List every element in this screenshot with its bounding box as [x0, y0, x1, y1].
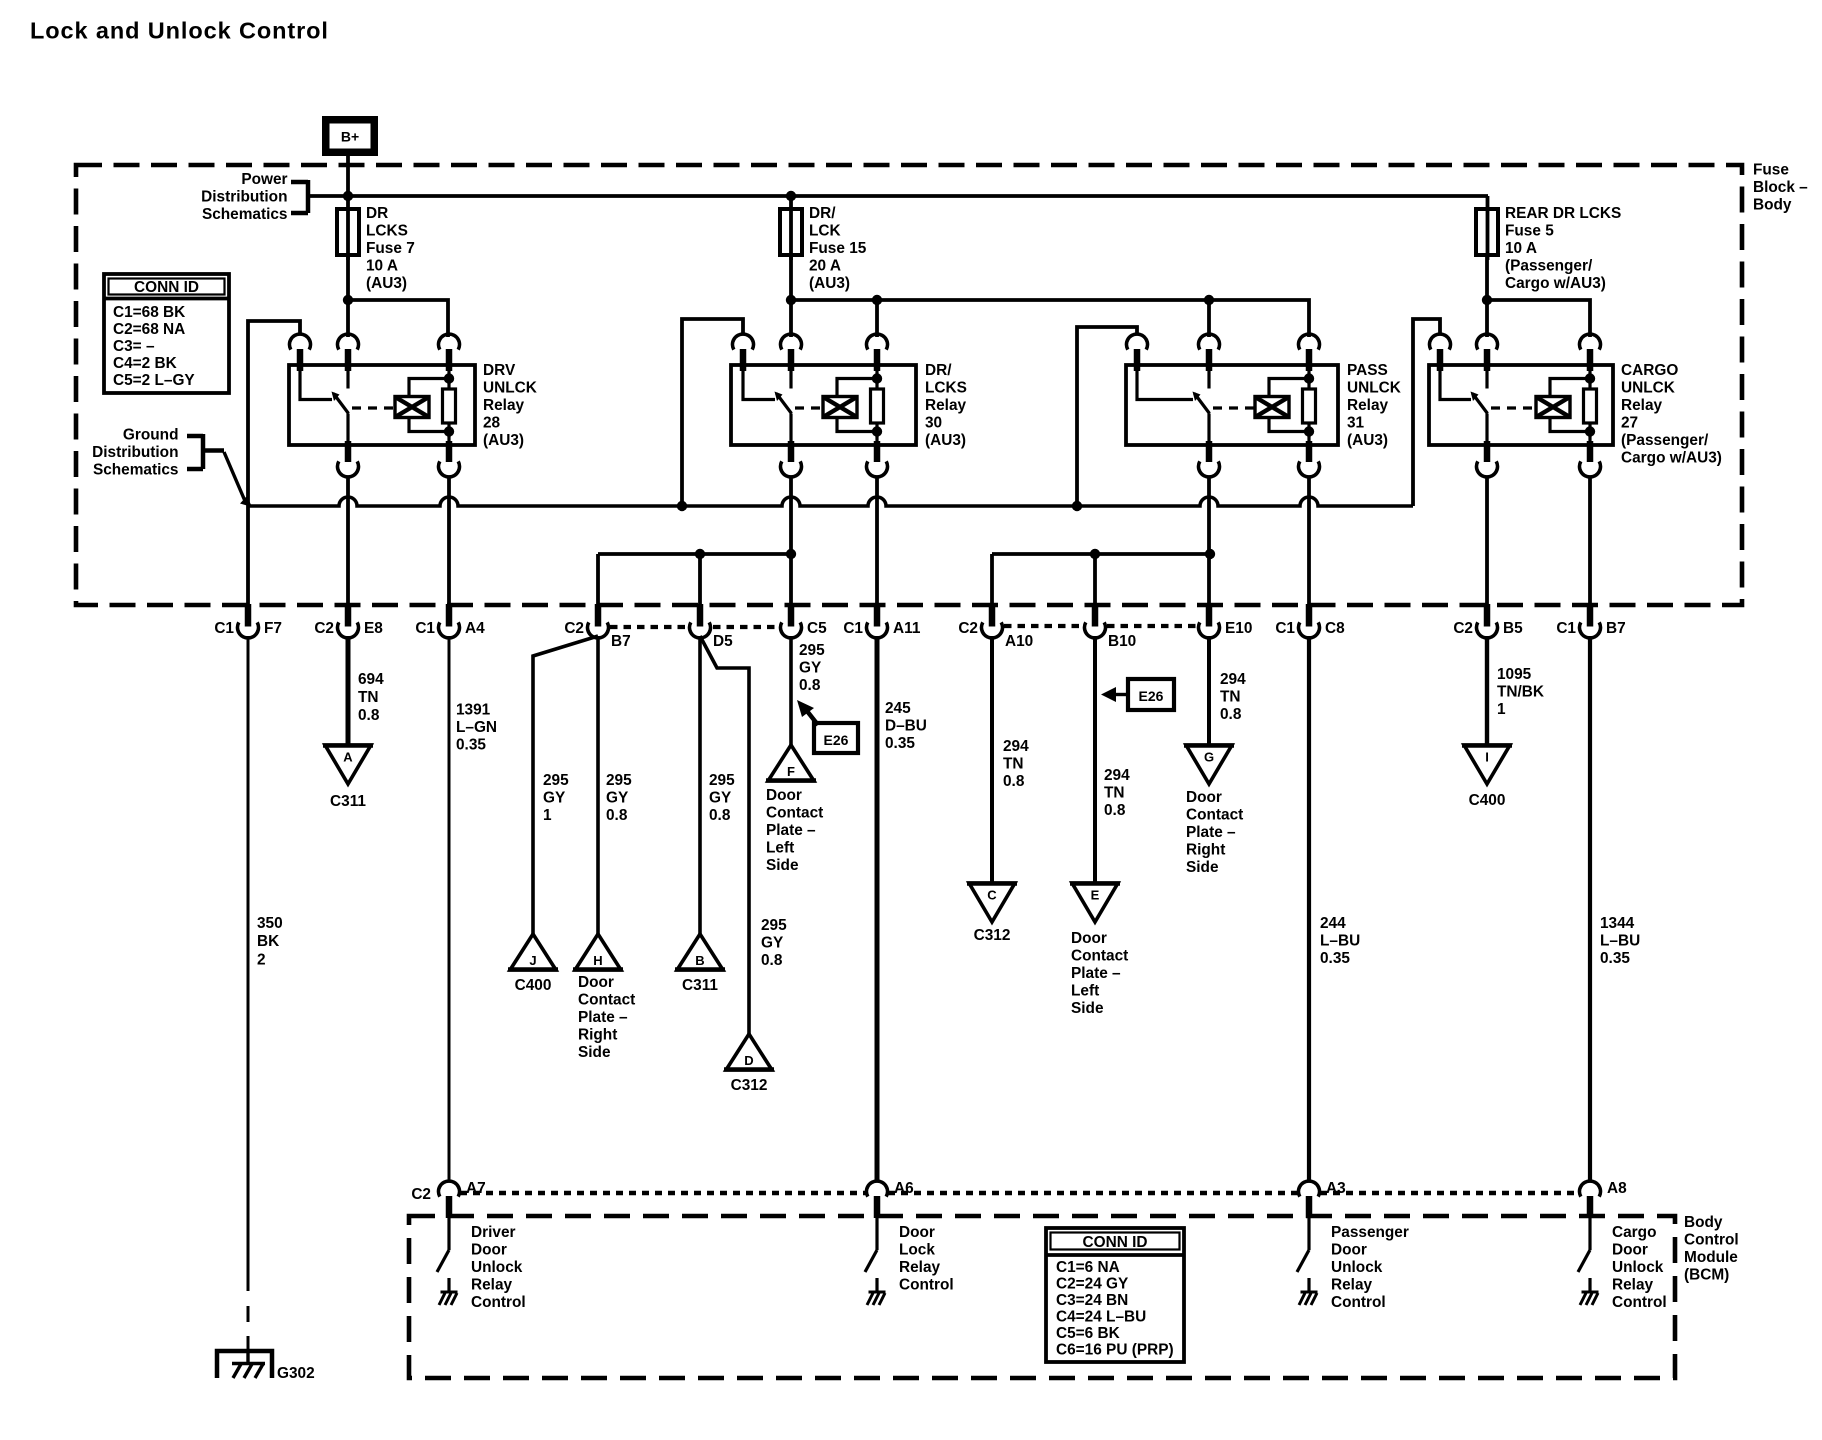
svg-text:Side: Side: [1186, 859, 1219, 876]
splice B to C311: [677, 934, 723, 970]
relay box r1: [289, 365, 475, 445]
svg-text:294: 294: [1220, 671, 1246, 688]
wire fuse 7 out to relay 28 coil: [348, 300, 448, 337]
svg-text:C1: C1: [1275, 620, 1295, 637]
fuse F15 DR/LCK body: [780, 209, 802, 255]
junction dot relay r2 coil bottom: [872, 426, 882, 436]
svg-text:Relay: Relay: [1612, 1277, 1654, 1294]
relay r1 switch arm: [334, 394, 349, 414]
ground G302: [217, 1351, 272, 1378]
junction dot relay r2 coil top: [872, 373, 882, 383]
relay r3 top pin right: [1299, 334, 1320, 350]
svg-text:Relay: Relay: [899, 1259, 941, 1276]
splice H door contact plate right: [575, 934, 621, 970]
svg-text:GY: GY: [799, 660, 822, 677]
relay r2 switch arm tip: [775, 392, 783, 402]
relay r4 coil branch wire: [1588, 371, 1591, 389]
svg-text:Power: Power: [241, 171, 287, 188]
relay r3 switch arm tip: [1193, 392, 1201, 402]
svg-text:(Passenger/: (Passenger/: [1621, 432, 1709, 449]
svg-text:Fuse 7: Fuse 7: [366, 240, 415, 257]
svg-text:0.35: 0.35: [456, 737, 486, 754]
svg-text:294: 294: [1003, 738, 1029, 755]
svg-text:C3=24 BN: C3=24 BN: [1056, 1292, 1128, 1309]
svg-text:GY: GY: [761, 935, 784, 952]
svg-text:Contact: Contact: [578, 992, 635, 1009]
svg-text:10 A: 10 A: [1505, 240, 1537, 257]
svg-text:B+: B+: [341, 129, 359, 145]
relay r2 resistor: [871, 389, 884, 423]
connector C1-A4: [446, 604, 453, 627]
connector group dotted line A10-B10-E10: [1004, 624, 1083, 628]
svg-text:Lock: Lock: [899, 1242, 935, 1259]
fuse block - body dashed box: [76, 165, 1742, 605]
body control module dashed box: [409, 1216, 1675, 1378]
svg-text:B5: B5: [1503, 620, 1523, 637]
svg-text:C2: C2: [314, 620, 334, 637]
BCM pin A3 passenger door unlock relay control: [1299, 1181, 1320, 1197]
wire relay30 C5 drop: [789, 477, 793, 607]
svg-text:Block –: Block –: [1753, 179, 1808, 196]
svg-text:Left: Left: [766, 840, 794, 857]
svg-text:295: 295: [606, 772, 632, 789]
svg-text:C311: C311: [682, 977, 718, 994]
relay box r2: [731, 365, 916, 445]
junction dot ground bus relay 31: [1072, 501, 1082, 511]
connector C2-B7: [595, 604, 602, 627]
svg-text:Door: Door: [899, 1224, 935, 1241]
connector C2-E8: [345, 604, 352, 627]
svg-text:0.8: 0.8: [358, 707, 380, 724]
junction dot fuse 15 feed: [786, 191, 796, 201]
svg-text:LCKS: LCKS: [366, 223, 408, 240]
splice D to C312: [726, 1034, 772, 1070]
svg-text:Door: Door: [1331, 1242, 1367, 1259]
wire fuse 5 to relay 27: [1485, 255, 1489, 337]
svg-text:C311: C311: [330, 793, 366, 810]
svg-text:I: I: [1485, 750, 1489, 765]
svg-text:294: 294: [1104, 767, 1130, 784]
svg-text:Unlock: Unlock: [1331, 1259, 1383, 1276]
svg-text:Passenger: Passenger: [1331, 1224, 1409, 1241]
svg-text:L–BU: L–BU: [1320, 933, 1360, 950]
relay r2 switch arm: [777, 394, 792, 414]
svg-text:Unlock: Unlock: [1612, 1259, 1664, 1276]
relay r2 coil parallel loop: [837, 379, 877, 397]
relay r3 switch common: [1137, 365, 1193, 400]
svg-text:0.8: 0.8: [799, 677, 821, 694]
svg-text:LCKS: LCKS: [925, 380, 967, 397]
splice G door contact plate right: [1186, 745, 1232, 784]
fuse F7 DR LCKS body: [337, 209, 359, 255]
relay r3 coil parallel loop: [1269, 379, 1309, 397]
svg-text:Schematics: Schematics: [202, 206, 288, 223]
svg-text:Cargo: Cargo: [1612, 1224, 1656, 1241]
svg-text:Right: Right: [578, 1027, 617, 1044]
svg-text:Side: Side: [766, 857, 799, 874]
wire 1344 L-BU 0.35 (B7 to BCM A8): [1588, 636, 1592, 1181]
conn id table (fuse block): [104, 274, 229, 393]
relay r1 resistor: [443, 389, 456, 423]
svg-text:C8: C8: [1325, 620, 1345, 637]
junction dot relay r3 coil bottom: [1304, 426, 1314, 436]
wire fuse 7 to relay 28: [346, 255, 350, 337]
wire B+ to fuse 7: [346, 156, 350, 260]
splice E door contact plate left: [1072, 883, 1118, 922]
svg-text:Driver: Driver: [471, 1224, 516, 1241]
svg-text:Door: Door: [766, 787, 802, 804]
relay r1 top pin right: [439, 334, 460, 350]
relay r1 coil parallel loop: [409, 379, 449, 397]
svg-text:295: 295: [709, 772, 735, 789]
svg-text:H: H: [593, 953, 602, 968]
relay r4 switch moving pole: [1485, 371, 1488, 389]
svg-text:UNLCK: UNLCK: [1347, 380, 1401, 397]
svg-text:Door: Door: [578, 974, 614, 991]
splice J to C400: [510, 934, 556, 970]
wire 1095 TN/BK 1 (B5 to I): [1485, 636, 1489, 745]
svg-text:0.35: 0.35: [1600, 950, 1630, 967]
svg-text:Fuse: Fuse: [1753, 162, 1789, 179]
relay r4 switch common: [1440, 365, 1471, 400]
relay r1 coil branch wire: [447, 371, 450, 389]
junction dot bus2-B10: [1090, 549, 1100, 559]
junction dot relay r4 coil top: [1585, 373, 1595, 383]
wire 694 TN 0.8 (E8 to A): [346, 636, 351, 745]
relay r4 coil: [1536, 397, 1570, 418]
svg-text:PASS: PASS: [1347, 362, 1388, 379]
relay r4 top pin left: [1430, 334, 1451, 350]
svg-text:C5=2 L–GY: C5=2 L–GY: [113, 372, 195, 389]
svg-text:(AU3): (AU3): [809, 275, 850, 292]
svg-text:20 A: 20 A: [809, 258, 841, 275]
svg-text:Fuse 15: Fuse 15: [809, 240, 867, 257]
svg-text:DR: DR: [366, 205, 388, 222]
svg-text:1391: 1391: [456, 702, 491, 719]
svg-text:C312: C312: [974, 927, 1011, 944]
svg-text:30: 30: [925, 415, 942, 432]
relay r3 pin bottom-right: [1306, 441, 1313, 462]
junction dot relay 30 coil feed: [872, 295, 882, 305]
connector B10: [1092, 604, 1099, 627]
svg-text:TN: TN: [1003, 756, 1024, 773]
relay box r4: [1429, 365, 1613, 445]
relay r3 pin bottom-left: [1206, 441, 1213, 462]
svg-text:F7: F7: [264, 620, 282, 637]
relay r4 switch arm tip: [1471, 392, 1479, 402]
relay box r3: [1126, 365, 1338, 445]
wire unlock bus right (relay 31 output): [992, 552, 1210, 556]
svg-text:C1=6 NA: C1=6 NA: [1056, 1259, 1120, 1276]
svg-text:L–BU: L–BU: [1600, 933, 1640, 950]
relay r2 pin bottom-right: [874, 441, 881, 462]
wire 1391 L-GN 0.35 (A4 to BCM A7): [448, 636, 451, 1181]
connector C2-A10: [989, 604, 996, 627]
wire 295 GY 0.8 (C5 to F): [789, 636, 793, 745]
svg-text:C2: C2: [958, 620, 978, 637]
wire A10 drop: [990, 554, 994, 607]
relay r1 pin bottom-right: [446, 441, 453, 462]
junction dot relay r4 coil bottom: [1585, 426, 1595, 436]
svg-text:E26: E26: [824, 732, 849, 748]
relay r3 switch arm: [1195, 394, 1210, 414]
svg-text:(AU3): (AU3): [483, 432, 524, 449]
wire 294 TN 0.8 (E10 to G): [1207, 636, 1211, 745]
svg-text:0.8: 0.8: [1104, 802, 1126, 819]
svg-text:350: 350: [257, 915, 283, 932]
wire relay27 B7 drop: [1588, 477, 1592, 607]
svg-text:0.8: 0.8: [1003, 773, 1025, 790]
relay r2 actuator dashed link: [795, 406, 822, 409]
connector C1-B7-bcm: [1587, 604, 1594, 627]
relay r1 pin bottom-left: [345, 441, 352, 462]
svg-text:C5: C5: [807, 620, 827, 637]
svg-text:Door: Door: [1071, 930, 1107, 947]
wire 295 GY 0.8 (B7 to H): [596, 636, 600, 934]
svg-text:C2=24 GY: C2=24 GY: [1056, 1276, 1129, 1293]
relay r4 pin bottom-left: [1484, 441, 1491, 462]
fuse F5 REAR DR LCKS body: [1476, 209, 1498, 255]
wire relay r3 switch ground feed: [1077, 327, 1137, 506]
wire unlock bus left (relay 30 output): [598, 552, 791, 556]
svg-text:BK: BK: [257, 933, 279, 950]
wire relay28 A4 drop: [447, 477, 451, 607]
svg-text:Control: Control: [1684, 1232, 1739, 1249]
relay r3 coil branch wire: [1307, 371, 1310, 389]
junction dot bus2-relay31: [1205, 549, 1215, 559]
svg-text:C1: C1: [843, 620, 863, 637]
relay r3 switch moving pole: [1207, 371, 1210, 389]
wire relay r1 switch ground feed: [248, 321, 300, 506]
svg-text:C6=16 PU (PRP): C6=16 PU (PRP): [1056, 1342, 1174, 1359]
wire feed to fuse 5: [1486, 196, 1490, 260]
svg-text:TN: TN: [1220, 689, 1241, 706]
svg-text:Relay: Relay: [471, 1277, 513, 1294]
wire B10 drop: [1093, 554, 1097, 607]
wire relay30 A11 drop: [875, 477, 879, 607]
svg-text:B7: B7: [1606, 620, 1626, 637]
wire 295 GY 1 (B7 to J): [533, 636, 598, 934]
svg-text:0.8: 0.8: [1220, 706, 1242, 723]
conn id table (BCM): [1046, 1228, 1184, 1362]
wire D5 drop: [698, 554, 702, 607]
svg-text:GY: GY: [606, 790, 629, 807]
svg-text:Side: Side: [1071, 1000, 1104, 1017]
BCM pin A8 cargo door unlock relay control: [1580, 1181, 1601, 1197]
svg-text:244: 244: [1320, 915, 1346, 932]
svg-text:0.35: 0.35: [1320, 950, 1350, 967]
svg-text:G: G: [1204, 750, 1214, 765]
svg-text:A: A: [343, 750, 353, 765]
svg-text:Contact: Contact: [1071, 948, 1128, 965]
svg-text:Body: Body: [1753, 197, 1792, 214]
relay r4 top pin right: [1580, 334, 1601, 350]
svg-text:DR/: DR/: [925, 362, 952, 379]
svg-text:A10: A10: [1005, 633, 1033, 650]
svg-text:Control: Control: [1612, 1294, 1667, 1311]
junction dot fuse 7 out: [343, 295, 353, 305]
svg-text:Side: Side: [578, 1044, 611, 1061]
relay r4 top pin middle: [1476, 334, 1497, 350]
svg-text:0.8: 0.8: [761, 952, 783, 969]
wire fuse 15 feed: [789, 196, 793, 260]
relay r4 pin bottom-right: [1587, 441, 1594, 462]
junction dot bus2-relay30: [786, 549, 796, 559]
svg-text:Schematics: Schematics: [93, 462, 179, 479]
svg-text:A6: A6: [894, 1180, 914, 1197]
wire 294 TN 0.8 (A10 to C): [990, 636, 994, 883]
svg-text:10 A: 10 A: [366, 258, 398, 275]
svg-text:F: F: [787, 764, 795, 779]
svg-text:27: 27: [1621, 415, 1638, 432]
relay r1 top pin middle: [338, 334, 359, 350]
svg-text:A8: A8: [1607, 1180, 1627, 1197]
svg-text:Control: Control: [471, 1294, 526, 1311]
svg-text:1: 1: [1497, 701, 1506, 718]
wire relay31 E10 drop: [1207, 477, 1211, 607]
svg-text:G302: G302: [277, 1365, 315, 1382]
svg-text:Door: Door: [471, 1242, 507, 1259]
svg-text:0.35: 0.35: [885, 735, 915, 752]
wire relay r2 switch ground feed: [682, 319, 743, 506]
wire B7 drop: [596, 554, 600, 607]
svg-text:B10: B10: [1108, 633, 1136, 650]
svg-text:Relay: Relay: [1621, 397, 1663, 414]
relay r2 coil branch wire: [875, 371, 878, 389]
svg-text:Contact: Contact: [766, 805, 823, 822]
relay r2 switch moving pole: [789, 371, 792, 389]
relay r3 top pin left: [1127, 334, 1148, 350]
splice I to C400: [1464, 745, 1510, 784]
wire 245 D-BU 0.35 (A11 to BCM A6): [875, 636, 880, 1181]
relay r2 top pin right: [867, 334, 888, 350]
svg-text:(BCM): (BCM): [1684, 1267, 1729, 1284]
wire fuse 5 out to relay 27 coil: [1487, 300, 1590, 337]
svg-text:DRV: DRV: [483, 362, 516, 379]
svg-text:C400: C400: [1469, 792, 1506, 809]
wire power distribution bus: [308, 194, 1488, 198]
svg-text:Lock and Unlock Control: Lock and Unlock Control: [30, 18, 329, 44]
svg-text:A3: A3: [1326, 1180, 1346, 1197]
svg-text:UNLCK: UNLCK: [1621, 380, 1675, 397]
svg-text:245: 245: [885, 700, 911, 717]
ground symbol E26 callout 2: [1101, 687, 1116, 702]
svg-text:31: 31: [1347, 415, 1365, 432]
junction dot fuse 5 out: [1482, 295, 1492, 305]
svg-text:2: 2: [257, 951, 266, 968]
splice F door contact plate left: [768, 745, 814, 781]
svg-text:Relay: Relay: [1331, 1277, 1373, 1294]
wire relay r4 switch ground feed: [1413, 319, 1440, 506]
svg-text:0.8: 0.8: [709, 807, 731, 824]
svg-text:(AU3): (AU3): [925, 432, 966, 449]
svg-text:Door: Door: [1612, 1242, 1648, 1259]
svg-text:C5=6 BK: C5=6 BK: [1056, 1325, 1120, 1342]
relay r3 resistor: [1303, 389, 1316, 423]
svg-text:Relay: Relay: [925, 397, 967, 414]
wire F7 ground riser: [246, 506, 250, 607]
wire 294 TN 0.8 (B10 to E): [1093, 636, 1097, 883]
relay r3 coil: [1255, 397, 1289, 418]
svg-text:Plate –: Plate –: [1071, 965, 1121, 982]
svg-text:Unlock: Unlock: [471, 1259, 523, 1276]
svg-text:C4=24 L–BU: C4=24 L–BU: [1056, 1309, 1146, 1326]
svg-text:L–GN: L–GN: [456, 719, 497, 736]
relay r4 actuator dashed link: [1491, 406, 1535, 409]
svg-text:A11: A11: [893, 620, 921, 637]
svg-text:28: 28: [483, 415, 501, 432]
svg-text:C1: C1: [415, 620, 435, 637]
relay r4 switch arm: [1473, 394, 1488, 414]
svg-text:D5: D5: [713, 633, 733, 650]
svg-text:DR/: DR/: [809, 205, 836, 222]
ground symbol E26 callout 1: [797, 700, 814, 717]
relay r4 coil parallel loop: [1550, 379, 1590, 397]
svg-text:C2=68 NA: C2=68 NA: [113, 321, 185, 338]
relay r2 coil: [823, 397, 857, 418]
svg-text:Body: Body: [1684, 1214, 1723, 1231]
svg-text:GY: GY: [709, 790, 732, 807]
power distribution bracket: [291, 180, 308, 185]
svg-text:D: D: [744, 1053, 753, 1068]
svg-text:C1: C1: [214, 620, 234, 637]
connector C1-A11: [874, 604, 881, 627]
wire relay27 B5 drop: [1485, 477, 1489, 607]
wire relay31 C8 drop: [1307, 477, 1311, 607]
relay r2 top pin middle: [781, 334, 802, 350]
ground distribution bracket: [187, 434, 203, 439]
svg-text:C4=2 BK: C4=2 BK: [113, 355, 177, 372]
relay r1 actuator dashed link: [352, 406, 394, 409]
svg-text:CONN ID: CONN ID: [134, 279, 199, 296]
svg-text:Distribution: Distribution: [92, 444, 178, 461]
relay r2 pin bottom-left: [788, 441, 795, 462]
junction dot fuse 15 out: [786, 295, 796, 305]
relay r3 top pin middle: [1199, 334, 1220, 350]
svg-text:694: 694: [358, 671, 384, 688]
svg-text:(Passenger/: (Passenger/: [1505, 258, 1593, 275]
BCM connector dotted line: [460, 1191, 866, 1196]
BCM pin A6 door lock relay control: [867, 1181, 888, 1197]
relay r1 switch moving pole: [346, 371, 349, 389]
wire 295 GY 0.8 (D5 to B): [698, 636, 702, 934]
wire 295 GY 0.8 (D5 to D): [700, 636, 749, 1034]
junction dot relay r1 coil bottom: [444, 426, 454, 436]
svg-text:1344: 1344: [1600, 915, 1635, 932]
BCM pin A7 driver door unlock relay control: [439, 1181, 460, 1197]
svg-text:1: 1: [543, 807, 552, 824]
junction dot relay r3 coil top: [1304, 373, 1314, 383]
svg-text:(AU3): (AU3): [1347, 432, 1388, 449]
svg-text:CONN ID: CONN ID: [1083, 1234, 1148, 1251]
svg-text:Right: Right: [1186, 842, 1225, 859]
connector C1-C8: [1306, 604, 1313, 627]
connector C2-B5: [1484, 604, 1491, 627]
svg-text:B: B: [695, 953, 704, 968]
wire relay 31 switch drop: [1207, 300, 1211, 337]
svg-text:Distribution: Distribution: [201, 189, 287, 206]
node B+ battery feed: [322, 116, 378, 156]
svg-text:(AU3): (AU3): [366, 275, 407, 292]
wire 350 BK 2 (F7 to G302): [247, 636, 250, 1291]
svg-text:E8: E8: [364, 620, 383, 637]
svg-text:Ground: Ground: [123, 427, 179, 444]
svg-text:C2: C2: [564, 620, 584, 637]
connector C5: [788, 604, 795, 627]
relay r1 top pin left: [290, 334, 311, 350]
svg-text:A7: A7: [466, 1180, 486, 1197]
ground distribution arrow: [224, 452, 245, 501]
